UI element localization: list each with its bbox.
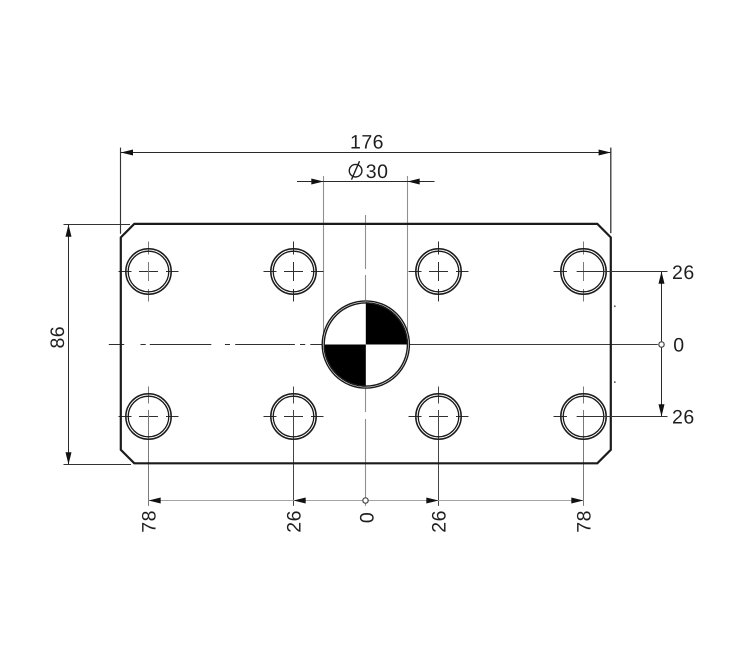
hole A4 <box>561 249 606 294</box>
tick mark right edge lower <box>614 381 616 383</box>
dimension 176 extension line right <box>610 148 612 234</box>
arrow dia30 right <box>408 179 420 185</box>
hole A2 <box>271 249 316 294</box>
arrow 176 left <box>121 150 133 156</box>
svg-text:26: 26 <box>672 262 695 284</box>
ordinate extension / centerline below hole B3 <box>438 387 440 506</box>
arrow bottom 26-left <box>294 498 306 504</box>
arrow bottom 26-right <box>426 498 438 504</box>
vertical centerline through central hole (ordinate 0 extension) <box>365 215 367 506</box>
svg-text:26: 26 <box>672 407 695 429</box>
dia-30 extension line right <box>407 176 409 334</box>
central hole with origin (center of mass) symbol <box>322 301 409 388</box>
ordinate extension / centerline below hole B2 <box>293 387 295 506</box>
hole B1 <box>126 394 171 439</box>
arrow 86 bottom <box>66 452 72 464</box>
origin marker bottom <box>363 498 368 503</box>
center mark hole B4 <box>554 416 568 418</box>
hole B4 <box>561 394 606 439</box>
arrow right-ordinate down <box>659 404 665 416</box>
dimension 176 extension line left <box>120 148 122 234</box>
hole B3 <box>416 394 461 439</box>
bottom ordinate dimension line <box>149 500 584 502</box>
svg-text:86: 86 <box>47 326 69 349</box>
right ordinate leader 26 top <box>577 271 668 273</box>
center mark hole A3 <box>409 242 469 302</box>
center mark hole A1 <box>119 242 179 302</box>
center mark hole A4 (horizontal merges into leader) <box>554 242 584 302</box>
svg-text:0: 0 <box>357 512 379 523</box>
ordinate extension / centerline below hole B4 <box>583 387 585 506</box>
diameter symbol <box>349 161 362 179</box>
dimension 86 extension line top <box>64 224 131 226</box>
svg-text:0: 0 <box>673 335 684 357</box>
arrow right-ordinate up <box>659 272 665 284</box>
horizontal centerline (right solid portion, ordinate 0 leader) <box>409 344 657 346</box>
svg-text:30: 30 <box>366 161 389 183</box>
hole A1 <box>126 249 171 294</box>
dia-30 extension line left <box>323 176 325 334</box>
arrow bottom 78-left <box>149 498 161 504</box>
svg-text:78: 78 <box>139 510 161 533</box>
dimension 86 extension line bottom <box>64 464 132 466</box>
arrow 176 right <box>599 150 611 156</box>
arrow dia30 left <box>311 179 323 185</box>
svg-text:176: 176 <box>350 132 384 154</box>
center mark hole B1 <box>119 416 179 418</box>
svg-text:78: 78 <box>574 510 596 533</box>
ordinate extension / centerline below hole B1 <box>148 387 150 506</box>
center mark hole B2 <box>264 416 324 418</box>
right ordinate dimension line <box>661 272 663 417</box>
tick mark right edge upper <box>614 306 616 308</box>
dimension 176 line <box>121 152 611 154</box>
center mark hole A2 <box>264 242 324 302</box>
plate outline with chamfered corners <box>121 224 611 463</box>
arrow 86 top <box>66 225 72 237</box>
origin marker right <box>659 342 664 347</box>
right ordinate leader 26 bottom <box>577 416 668 418</box>
dimension 86 line <box>68 225 70 465</box>
arrow bottom 78-right <box>571 498 583 504</box>
horizontal centerline (left dash-dot portion) <box>109 344 324 346</box>
svg-text:26: 26 <box>429 510 451 533</box>
hole B2 <box>271 394 316 439</box>
svg-text:26: 26 <box>284 510 306 533</box>
hole A3 <box>416 249 461 294</box>
center mark hole B3 <box>409 416 469 418</box>
dimension dia30 line <box>297 181 435 183</box>
